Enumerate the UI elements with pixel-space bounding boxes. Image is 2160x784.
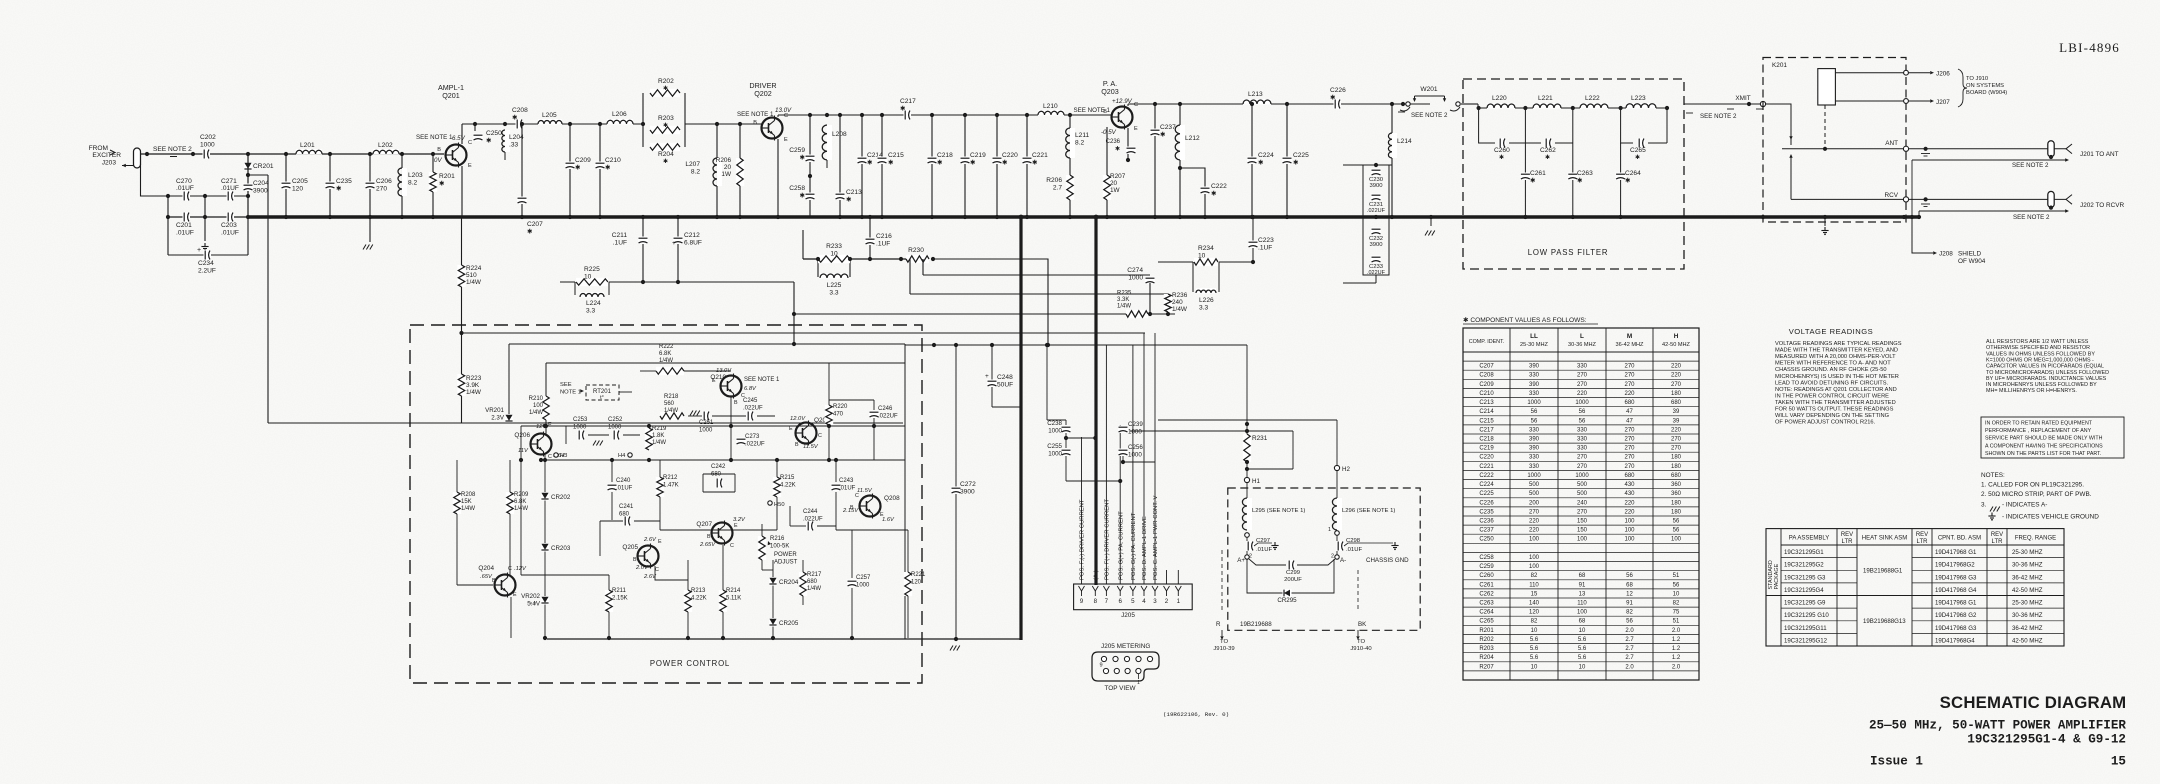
svg-text:L295 (SEE NOTE 1): L295 (SEE NOTE 1) <box>1252 508 1305 514</box>
svg-text:56: 56 <box>1579 418 1586 424</box>
svg-text:1000: 1000 <box>1527 473 1541 479</box>
svg-text:270: 270 <box>1624 373 1635 379</box>
svg-text:K201: K201 <box>1772 62 1787 69</box>
svg-text:POWER: POWER <box>774 552 797 558</box>
svg-text:E: E <box>789 426 793 432</box>
svg-text:25-30 MHZ: 25-30 MHZ <box>2012 549 2043 556</box>
svg-text:3.9K: 3.9K <box>466 382 480 389</box>
svg-text:270: 270 <box>1577 373 1588 379</box>
svg-text:R235: R235 <box>1117 291 1132 297</box>
svg-text:19C321295 G10: 19C321295 G10 <box>1784 612 1829 619</box>
svg-text:19D417968 G3: 19D417968 G3 <box>1935 574 1977 581</box>
svg-text:BK: BK <box>1358 621 1367 628</box>
svg-text:R210: R210 <box>529 396 544 402</box>
svg-text:270: 270 <box>1624 455 1635 461</box>
svg-text:19C321295 G9: 19C321295 G9 <box>1784 600 1826 607</box>
svg-text:36-42 MHZ: 36-42 MHZ <box>2012 574 2043 581</box>
svg-text:19C321295G1-4 & G9-12: 19C321295G1-4 & G9-12 <box>1967 733 2126 747</box>
svg-text:R234: R234 <box>1198 245 1214 252</box>
svg-text:500: 500 <box>1529 491 1540 497</box>
svg-text:25—50 MHz, 50-WATT POWER AMPLI: 25—50 MHz, 50-WATT POWER AMPLIFIER <box>1869 719 2126 733</box>
svg-text:56: 56 <box>1673 519 1680 525</box>
svg-text:C220: C220 <box>1479 455 1494 461</box>
svg-text:BOARD (W904): BOARD (W904) <box>1966 90 2007 96</box>
svg-text:56: 56 <box>1626 619 1633 625</box>
svg-text:✱: ✱ <box>1499 154 1504 161</box>
svg-text:POS. C. AMPL-1 PWR CONT. V: POS. C. AMPL-1 PWR CONT. V <box>1153 495 1159 580</box>
svg-text:CR295: CR295 <box>1277 597 1297 604</box>
svg-text:500: 500 <box>1577 491 1588 497</box>
svg-text:.33: .33 <box>509 141 518 148</box>
svg-text:100-5K: 100-5K <box>770 543 789 549</box>
svg-text:12.0V: 12.0V <box>790 416 806 422</box>
svg-text:100: 100 <box>1529 564 1540 570</box>
svg-text:CR201: CR201 <box>253 163 274 170</box>
svg-text:R: R <box>1216 621 1221 628</box>
svg-text:REV: REV <box>1841 532 1853 538</box>
svg-text:39: 39 <box>1673 409 1680 415</box>
svg-text:10: 10 <box>1579 664 1586 670</box>
svg-text:1000: 1000 <box>1575 400 1589 406</box>
svg-text:270: 270 <box>1671 382 1682 388</box>
svg-text:R215: R215 <box>780 475 795 481</box>
svg-text:E: E <box>784 137 788 143</box>
svg-text:11V: 11V <box>518 448 529 454</box>
svg-text:R225: R225 <box>584 266 600 273</box>
svg-text:Q202: Q202 <box>754 89 772 98</box>
svg-text:C256: C256 <box>1128 444 1143 451</box>
svg-text:19D417968 G1: 19D417968 G1 <box>1935 549 1977 556</box>
svg-text:SEE NOTE 2: SEE NOTE 2 <box>1411 112 1448 119</box>
svg-text:J203: J203 <box>102 160 117 167</box>
svg-text:C: C <box>818 433 822 439</box>
svg-text:19D417968G4: 19D417968G4 <box>1935 637 1975 644</box>
svg-text:C250: C250 <box>486 130 502 137</box>
svg-text:3900: 3900 <box>960 488 975 495</box>
svg-text:10: 10 <box>830 250 838 257</box>
svg-text:H1: H1 <box>1252 478 1260 485</box>
svg-text:PA ASSEMBLY: PA ASSEMBLY <box>1789 536 1829 542</box>
svg-text:R236: R236 <box>1172 292 1188 299</box>
svg-text:B: B <box>1103 109 1107 115</box>
svg-text:C237: C237 <box>1479 528 1494 534</box>
svg-text:8.2: 8.2 <box>1075 139 1084 146</box>
svg-text:C239: C239 <box>1128 421 1143 428</box>
svg-text:470: 470 <box>833 411 844 417</box>
svg-text:C271: C271 <box>221 178 237 185</box>
svg-text:NOTE 1: NOTE 1 <box>560 389 581 395</box>
svg-text:IN ORDER TO RETAIN RATED: IN ORDER TO RETAIN RATED EQUIPMENT <box>1985 421 2093 427</box>
svg-text:91: 91 <box>1626 601 1633 607</box>
svg-text:PACKAGE: PACKAGE <box>1774 563 1780 589</box>
svg-text:75: 75 <box>1673 610 1680 616</box>
svg-text:PERFORMANCE , REPLACEMENT OF: PERFORMANCE , REPLACEMENT OF ANY <box>1985 428 2092 434</box>
svg-text:SCHEMATIC DIAGRAM: SCHEMATIC DIAGRAM <box>1940 693 2127 712</box>
svg-text:56: 56 <box>1673 582 1680 588</box>
svg-text:500: 500 <box>1529 482 1540 488</box>
svg-text:L203: L203 <box>408 172 423 179</box>
svg-text:240: 240 <box>1172 299 1183 306</box>
svg-text:C241: C241 <box>619 504 634 510</box>
svg-text:2.7: 2.7 <box>1625 655 1634 661</box>
svg-text:POS. G(+) PA. CURRENT: POS. G(+) PA. CURRENT <box>1118 511 1124 580</box>
svg-text:J201 TO ANT: J201 TO ANT <box>2080 151 2119 158</box>
svg-text:IN THE POWER CONTROL CIRCU: IN THE POWER CONTROL CIRCUIT WERE <box>1775 393 1889 399</box>
svg-text:82: 82 <box>1531 573 1538 579</box>
svg-text:TOP VIEW: TOP VIEW <box>1104 685 1136 692</box>
svg-text:FOR 50 WATTS OUTPUT. THESE: FOR 50 WATTS OUTPUT. THESE READINGS <box>1775 407 1894 413</box>
svg-text:19D417968 G2: 19D417968 G2 <box>1935 612 1977 619</box>
svg-text:C265: C265 <box>1479 619 1494 625</box>
svg-text:C238: C238 <box>1047 420 1062 427</box>
svg-text:ANT: ANT <box>1885 140 1898 147</box>
svg-text:56: 56 <box>1531 418 1538 424</box>
svg-text:5.6: 5.6 <box>1530 637 1539 643</box>
svg-text:R231: R231 <box>1252 435 1268 442</box>
svg-text:C220: C220 <box>1002 152 1018 159</box>
svg-text:110: 110 <box>1577 601 1587 607</box>
svg-text:2: 2 <box>1165 598 1169 605</box>
svg-text:R216: R216 <box>770 536 785 542</box>
svg-text:R220: R220 <box>833 404 848 410</box>
svg-text:J202 TO RCVR: J202 TO RCVR <box>2080 202 2125 209</box>
svg-text:15K: 15K <box>461 499 472 505</box>
svg-text:25-30 MHZ: 25-30 MHZ <box>2012 600 2043 607</box>
svg-text:- INDICATES A-: - INDICATES A- <box>2002 502 2047 509</box>
svg-text:SEE NOTE 2: SEE NOTE 2 <box>2012 162 2049 169</box>
svg-text:SHOWN ON THE PARTS LIST F: SHOWN ON THE PARTS LIST FOR THAT PART. <box>1985 451 2101 457</box>
svg-text:✱: ✱ <box>799 153 805 161</box>
svg-text:SEE NOTE 1: SEE NOTE 1 <box>744 377 780 383</box>
svg-text:68: 68 <box>1626 582 1633 588</box>
svg-text:C235: C235 <box>336 178 352 185</box>
svg-text:1: 1 <box>1137 680 1140 686</box>
svg-text:C237: C237 <box>1160 124 1176 131</box>
svg-text:XMIT: XMIT <box>1735 95 1750 102</box>
svg-text:VALUES IN OHMS UNLESS FOLL: VALUES IN OHMS UNLESS FOLLOWED BY <box>1986 351 2095 357</box>
svg-text:R204: R204 <box>658 151 674 158</box>
svg-text:C: C <box>730 543 734 549</box>
svg-text:1000: 1000 <box>1527 400 1541 406</box>
svg-text:.01UF: .01UF <box>221 185 239 192</box>
svg-text:2: 2 <box>1331 554 1334 560</box>
svg-text:POS. D. AMPL-1 DRIVE: POS. D. AMPL-1 DRIVE <box>1142 516 1148 580</box>
svg-text:Issue 1: Issue 1 <box>1870 755 1923 769</box>
svg-text:R203: R203 <box>1479 646 1494 652</box>
svg-text:LTR: LTR <box>1842 539 1854 545</box>
svg-text:C263: C263 <box>1479 601 1494 607</box>
svg-text:1. CALLED FOR ON PL19C32129: 1. CALLED FOR ON PL19C321295. <box>1981 482 2084 489</box>
svg-text:C203: C203 <box>221 222 237 229</box>
svg-text:✱: ✱ <box>336 184 342 192</box>
svg-text:120: 120 <box>1529 610 1540 616</box>
svg-text:C: C <box>468 140 472 146</box>
svg-text:20: 20 <box>724 164 732 171</box>
svg-text:270: 270 <box>1624 382 1635 388</box>
svg-text:MADE WITH THE TRANSMITTER: MADE WITH THE TRANSMITTER KEYED, AND <box>1775 348 1898 354</box>
svg-text:METER WITH REFERENCE TO A-: METER WITH REFERENCE TO A- AND NOT <box>1775 361 1891 367</box>
svg-text:3900: 3900 <box>253 187 268 194</box>
svg-text:✱: ✱ <box>486 136 492 144</box>
svg-text:J910-40: J910-40 <box>1350 646 1372 652</box>
svg-text:1: 1 <box>1328 527 1331 533</box>
svg-text:13: 13 <box>1579 591 1586 597</box>
svg-text:10: 10 <box>1531 628 1538 634</box>
svg-text:510: 510 <box>466 272 477 279</box>
svg-text:✱: ✱ <box>1160 130 1166 138</box>
svg-text:J206: J206 <box>1936 71 1950 78</box>
svg-text:✱: ✱ <box>1625 176 1631 184</box>
svg-text:SEE NOTE 1: SEE NOTE 1 <box>737 111 774 118</box>
svg-text:C264: C264 <box>1479 610 1494 616</box>
svg-text:R201: R201 <box>439 173 455 180</box>
svg-text:Q203: Q203 <box>1101 87 1119 96</box>
svg-text:MEASURED WITH A 20,000 OHM: MEASURED WITH A 20,000 OHMS-PER-VOLT <box>1775 354 1896 360</box>
svg-text:SEE: SEE <box>560 382 572 388</box>
svg-text:EXCITER: EXCITER <box>92 152 121 159</box>
svg-text:MH= MILLIHENRYS OR H=HENRYS.: MH= MILLIHENRYS OR H=HENRYS. <box>1986 388 2077 394</box>
svg-text:13.0V: 13.0V <box>716 368 732 374</box>
svg-text:19C321295G1: 19C321295G1 <box>1784 549 1824 556</box>
svg-text:✱: ✱ <box>663 158 668 165</box>
svg-text:M: M <box>1627 333 1632 340</box>
svg-text:C215: C215 <box>1479 418 1494 424</box>
svg-text:42-50 MHZ: 42-50 MHZ <box>1662 342 1691 348</box>
svg-text:3900: 3900 <box>1369 183 1383 189</box>
svg-text:2.3V: 2.3V <box>491 414 505 421</box>
svg-text:✱: ✱ <box>937 158 943 166</box>
svg-text:C216: C216 <box>876 233 892 240</box>
svg-text:C255: C255 <box>1047 443 1062 450</box>
svg-text:B: B <box>707 534 711 540</box>
svg-text:✱: ✱ <box>1330 93 1336 101</box>
svg-text:L226: L226 <box>1199 297 1214 304</box>
svg-text:R214: R214 <box>726 588 741 594</box>
svg-text:C259: C259 <box>1479 564 1494 570</box>
svg-text:L205: L205 <box>542 112 557 119</box>
svg-text:15: 15 <box>1531 591 1538 597</box>
svg-text:✱: ✱ <box>970 158 976 166</box>
svg-text:✱: ✱ <box>663 85 668 92</box>
svg-text:W201: W201 <box>1420 86 1438 93</box>
svg-text:42-50 MHZ: 42-50 MHZ <box>2012 637 2043 644</box>
svg-text:C209: C209 <box>575 157 591 164</box>
svg-text:8: 8 <box>1094 598 1098 605</box>
svg-text:220: 220 <box>1671 427 1682 433</box>
svg-text:C204: C204 <box>253 180 269 187</box>
svg-text:7: 7 <box>1105 598 1109 605</box>
svg-text:✱: ✱ <box>1545 154 1550 161</box>
svg-text:C265: C265 <box>1630 147 1646 154</box>
svg-text:.022UF: .022UF <box>878 413 898 419</box>
svg-text:100: 100 <box>1624 528 1635 534</box>
svg-text:6.8V: 6.8V <box>744 386 757 392</box>
svg-text:3.3K: 3.3K <box>1117 297 1129 303</box>
svg-text:CHASSIS GND: CHASSIS GND <box>1366 557 1409 564</box>
svg-text:1/4W: 1/4W <box>529 410 543 416</box>
svg-text:SERVICE PART SHOULD BE MAD: SERVICE PART SHOULD BE MADE ONLY WITH <box>1985 436 2103 442</box>
svg-text:270: 270 <box>1577 464 1588 470</box>
svg-text:L210: L210 <box>1043 103 1058 110</box>
svg-text:C225: C225 <box>1479 491 1494 497</box>
svg-text:R202: R202 <box>658 78 674 85</box>
svg-text:C236: C236 <box>1106 139 1121 145</box>
svg-text:50UF: 50UF <box>997 381 1013 388</box>
svg-text:C219: C219 <box>1479 446 1494 452</box>
svg-text:VOLTAGE READINGS ARE TYPICA: VOLTAGE READINGS ARE TYPICAL READINGS <box>1775 341 1902 347</box>
svg-text:B: B <box>753 120 757 126</box>
svg-text:C273: C273 <box>745 434 760 440</box>
svg-text:E: E <box>1134 126 1138 132</box>
svg-text:330: 330 <box>1529 464 1540 470</box>
svg-text:560: 560 <box>664 401 675 407</box>
svg-text:5.4V: 5.4V <box>527 600 541 607</box>
svg-text:✱: ✱ <box>1293 158 1299 166</box>
svg-text:BY UF= MICROFARADS. INDUCTANCE: BY UF= MICROFARADS. INDUCTANCE VALUES <box>1986 376 2107 382</box>
svg-text:L207: L207 <box>685 161 700 168</box>
svg-text:t°: t° <box>600 395 604 401</box>
svg-text:FREQ. RANGE: FREQ. RANGE <box>2015 536 2056 542</box>
svg-text:42-50 MHZ: 42-50 MHZ <box>2012 587 2043 594</box>
svg-text:91: 91 <box>1579 582 1586 588</box>
svg-text:270: 270 <box>1624 427 1635 433</box>
svg-text:1: 1 <box>1177 598 1181 605</box>
svg-text:+: + <box>985 373 989 380</box>
svg-text:1/4W: 1/4W <box>807 586 821 592</box>
svg-text:C223: C223 <box>1258 237 1274 244</box>
svg-text:L224: L224 <box>586 300 601 307</box>
svg-text:36-42 MHZ: 36-42 MHZ <box>2012 625 2043 632</box>
svg-text:C208: C208 <box>1479 373 1494 379</box>
svg-text:100: 100 <box>1577 537 1588 543</box>
svg-text:ON SYSTEMS: ON SYSTEMS <box>1966 83 2004 89</box>
svg-text:C235: C235 <box>1479 509 1494 515</box>
svg-text:L: L <box>1580 333 1584 340</box>
svg-text:C206: C206 <box>376 178 392 185</box>
svg-text:1W: 1W <box>1110 187 1121 194</box>
svg-text:C234: C234 <box>198 260 214 267</box>
svg-text:VR201: VR201 <box>485 407 504 414</box>
svg-text:C215: C215 <box>888 152 904 159</box>
svg-text:2.7: 2.7 <box>1625 646 1634 652</box>
svg-text:1/4W: 1/4W <box>466 389 482 396</box>
svg-text:C217: C217 <box>900 98 916 105</box>
svg-text:CAPACITOR VALUES IN PICOFAR: CAPACITOR VALUES IN PICOFARADS (EQUAL <box>1986 364 2104 370</box>
svg-text:C210: C210 <box>605 157 621 164</box>
svg-text:✱: ✱ <box>888 158 894 166</box>
svg-text:3.3: 3.3 <box>1199 304 1208 311</box>
svg-text:3: 3 <box>1153 598 1157 605</box>
svg-text:✱: ✱ <box>867 158 873 166</box>
svg-text:270: 270 <box>1624 437 1635 443</box>
svg-text:E: E <box>513 592 517 598</box>
svg-text:120: 120 <box>292 185 303 192</box>
svg-text:C274: C274 <box>1127 267 1143 274</box>
svg-text:.1UF: .1UF <box>876 240 890 247</box>
svg-text:C257: C257 <box>856 575 871 581</box>
svg-text:LL: LL <box>1530 333 1538 340</box>
svg-text:220: 220 <box>1671 373 1682 379</box>
svg-text:L212: L212 <box>1185 135 1200 142</box>
svg-text:270: 270 <box>1624 446 1635 452</box>
svg-text:1000: 1000 <box>1128 274 1143 281</box>
svg-text:Q201: Q201 <box>442 91 460 100</box>
svg-text:8.2: 8.2 <box>691 168 700 175</box>
svg-text:1000: 1000 <box>1128 451 1142 458</box>
svg-text:2.7: 2.7 <box>1053 184 1062 191</box>
svg-text:360: 360 <box>1671 482 1682 488</box>
svg-text:56: 56 <box>1531 409 1538 415</box>
svg-text:✱: ✱ <box>1635 154 1640 161</box>
svg-text:R206: R206 <box>1046 177 1062 184</box>
svg-text:15: 15 <box>2111 755 2126 769</box>
svg-text:5.11K: 5.11K <box>726 595 741 601</box>
svg-text:82: 82 <box>1626 610 1633 616</box>
svg-text:✱: ✱ <box>1211 189 1217 197</box>
svg-text:E: E <box>658 539 662 545</box>
svg-text:100: 100 <box>1624 519 1635 525</box>
svg-text:30-36 MHZ: 30-36 MHZ <box>2012 612 2043 619</box>
svg-text:C: C <box>784 113 788 119</box>
svg-text:FROM: FROM <box>89 145 108 152</box>
svg-text:39: 39 <box>1673 418 1680 424</box>
svg-text:56: 56 <box>1579 409 1586 415</box>
svg-text:E: E <box>712 378 716 384</box>
svg-text:R230: R230 <box>908 247 924 254</box>
svg-text:.022UF: .022UF <box>743 405 763 411</box>
svg-text:390: 390 <box>1529 437 1540 443</box>
svg-text:2. 50Ω MICRO STRIP, PART O: 2. 50Ω MICRO STRIP, PART OF PWB. <box>1981 491 2092 498</box>
svg-text:C272: C272 <box>960 481 976 488</box>
svg-text:C251: C251 <box>699 420 714 426</box>
svg-text:L225: L225 <box>827 282 842 289</box>
svg-text:6.8K: 6.8K <box>659 351 671 357</box>
svg-text:J205 METERING: J205 METERING <box>1101 643 1150 650</box>
svg-text:10: 10 <box>584 273 592 280</box>
svg-text:220: 220 <box>1624 500 1635 506</box>
svg-text:.022UF: .022UF <box>803 516 823 522</box>
svg-text:2.15K: 2.15K <box>612 595 628 601</box>
svg-text:RCV: RCV <box>1885 192 1899 199</box>
svg-text:19B219688G1: 19B219688G1 <box>1863 567 1903 574</box>
svg-text:✱: ✱ <box>846 195 852 203</box>
svg-text:680: 680 <box>807 579 818 585</box>
svg-text:VR202: VR202 <box>521 593 540 600</box>
svg-text:9: 9 <box>1099 663 1102 669</box>
svg-text:L222: L222 <box>1585 95 1600 102</box>
svg-text:TO MICROMICROFARADS) UNLESS: TO MICROMICROFARADS) UNLESS FOLLOWED <box>1986 370 2109 376</box>
svg-text:J205: J205 <box>1121 612 1135 619</box>
svg-text:150: 150 <box>1577 528 1588 534</box>
svg-text:C260: C260 <box>1494 147 1510 154</box>
svg-text:1.2: 1.2 <box>1672 646 1681 652</box>
svg-text:140: 140 <box>1529 601 1540 607</box>
svg-text:POS. F.(-) DRIVER CURRENT: POS. F.(-) DRIVER CURRENT <box>1080 499 1086 580</box>
svg-text:CR203: CR203 <box>551 545 571 552</box>
svg-text:2.0: 2.0 <box>1625 628 1634 634</box>
svg-text:REV: REV <box>1916 532 1928 538</box>
svg-text:POS. G(-) PA. CURRENT: POS. G(-) PA. CURRENT <box>1131 512 1137 580</box>
svg-text:6: 6 <box>1118 598 1122 605</box>
svg-text:✱: ✱ <box>527 227 533 235</box>
svg-text:1000: 1000 <box>1048 427 1062 434</box>
svg-text:56: 56 <box>1673 528 1680 534</box>
svg-text:Q207: Q207 <box>696 521 712 528</box>
svg-text:✱: ✱ <box>1115 145 1120 152</box>
svg-text:19C321295G11: 19C321295G11 <box>1784 625 1827 632</box>
svg-text:390: 390 <box>1529 382 1540 388</box>
svg-text:220: 220 <box>1529 519 1540 525</box>
